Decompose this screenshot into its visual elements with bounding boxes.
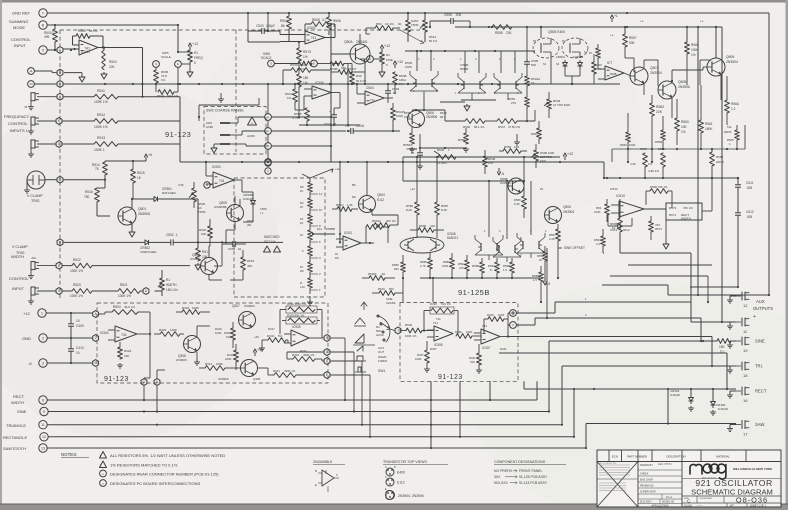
- svg-text:100K: 100K: [404, 115, 411, 119]
- svg-text:40K: 40K: [247, 264, 252, 268]
- resistor R588: [420, 253, 432, 278]
- terminal 13: [28, 81, 35, 88]
- trimmer BOTTOM END: [531, 144, 554, 168]
- svg-text:R545: R545: [437, 148, 445, 152]
- svg-text:R515: R515: [137, 171, 145, 175]
- svg-text:INPUT: INPUT: [12, 286, 25, 291]
- jack 18 TRI: [727, 362, 763, 378]
- svg-text:500A 1%: 500A 1%: [167, 94, 179, 98]
- trimmer R545: [430, 148, 466, 165]
- svg-text:(.1: (.1: [260, 211, 264, 215]
- resistor chain right: [350, 64, 367, 86]
- svg-text:R1: R1: [166, 278, 170, 282]
- boxed resistor R338: [424, 302, 458, 334]
- svg-text:3: 3: [42, 361, 44, 365]
- vert 348: [347, 64, 365, 125]
- svg-text:R547: R547: [498, 125, 506, 129]
- svg-text:R5612: R5612: [372, 219, 381, 223]
- IC506m out: [331, 93, 340, 109]
- svg-text:2N340L: 2N340L: [356, 40, 368, 44]
- wire q508 down: [627, 98, 672, 163]
- svg-text:R9: R9: [335, 256, 339, 260]
- svg-text:R56A: R56A: [731, 102, 740, 106]
- svg-text:ICT: ICT: [607, 61, 612, 65]
- resistor R50h: [366, 22, 400, 34]
- resistor R518A: [362, 272, 395, 280]
- svg-text:MODE: MODE: [13, 25, 25, 30]
- resistor 15K D1: [702, 339, 736, 354]
- svg-text:C503: C503: [256, 24, 264, 28]
- svg-text:CHECK: CHECK: [640, 473, 649, 476]
- svg-text:51K: 51K: [470, 360, 475, 364]
- svg-text:TRANSISTOR TOP VIEWS: TRANSISTOR TOP VIEWS: [383, 460, 427, 464]
- svg-text:24K 5: 24K 5: [716, 160, 724, 164]
- svg-text:GND REF: GND REF: [12, 11, 31, 16]
- svg-text:+L: +L: [640, 19, 644, 23]
- svg-text:IC510: IC510: [610, 187, 618, 191]
- pot RL freq: [181, 42, 203, 77]
- svg-text:R511: R511: [97, 89, 105, 93]
- svg-text:R335 80K 1%: R335 80K 1%: [287, 314, 305, 318]
- transistor Q50A: [344, 40, 370, 64]
- wire R515 down: [131, 183, 133, 200]
- svg-text:10: 10: [612, 226, 616, 230]
- op-amp output wire: [97, 48, 144, 98]
- svg-text:499K 1%: 499K 1%: [303, 353, 315, 357]
- resistor R504b2: [156, 67, 179, 98]
- svg-text:86: 86: [281, 24, 285, 28]
- resistor R590: [410, 224, 444, 232]
- resistor R589: [442, 253, 454, 278]
- svg-text:100K 1: 100K 1: [94, 148, 105, 152]
- svg-text:R320: R320: [182, 306, 190, 310]
- svg-text:R560: R560: [620, 143, 627, 147]
- svg-text:FREQUENCY: FREQUENCY: [4, 114, 29, 119]
- svg-text:100K: 100K: [170, 328, 177, 332]
- svg-text:Q507: Q507: [650, 66, 658, 70]
- ICT out wire: [624, 73, 631, 76]
- svg-text:13: 13: [41, 446, 45, 450]
- Q306 wires: [194, 326, 210, 365]
- svg-text:+5V: +5V: [254, 335, 259, 339]
- pot R573 RECT WIDTH box: [644, 178, 712, 221]
- wire cluster joins: [420, 102, 535, 146]
- node E scale: [311, 60, 318, 67]
- svg-text:921 OSCILLATOR: 921 OSCILLATOR: [695, 478, 772, 488]
- label 91-123 bl: [104, 376, 129, 383]
- svg-text:+: +: [753, 314, 756, 320]
- Q509 base link: [671, 67, 707, 82]
- Q50A wires: [331, 34, 381, 72]
- svg-text:IC506: IC506: [315, 81, 324, 85]
- svg-text:741: 741: [121, 333, 127, 337]
- mid wire y148: [419, 147, 466, 149]
- ladder top trim: [302, 167, 340, 182]
- svg-text:3XX: 3XX: [494, 475, 501, 479]
- resistor R339: [453, 330, 481, 338]
- svg-text:REVIEW QC: REVIEW QC: [640, 485, 654, 488]
- svg-text:V CLAMP: V CLAMP: [12, 245, 28, 249]
- wire rectangle row: [48, 436, 574, 438]
- wire bus y51 pairs: [405, 50, 535, 52]
- svg-text:TRIG: TRIG: [31, 199, 40, 203]
- svg-text:68.1%: 68.1%: [89, 29, 98, 33]
- capacitor C502: [152, 233, 283, 245]
- resistor R504b: [99, 305, 150, 335]
- Q501 collector: [132, 199, 151, 208]
- resistor R560b: [620, 113, 636, 152]
- resistor R337: [415, 341, 430, 372]
- arrow +L top: [610, 14, 618, 22]
- svg-text:100K: 100K: [629, 143, 636, 147]
- svg-text:R313: R313: [205, 362, 213, 366]
- svg-text:SET 1%: SET 1%: [264, 240, 276, 244]
- resistor R318: [225, 344, 238, 370]
- vert aux feeds: [698, 27, 722, 322]
- supply verts box D: [402, 157, 434, 302]
- svg-text:+12: +12: [384, 44, 390, 48]
- wire y125: [299, 124, 360, 126]
- svg-text:R59B: R59B: [472, 264, 479, 268]
- resistor R5C6: [285, 83, 304, 110]
- node A out1: [141, 378, 150, 385]
- svg-text:SHAPE: SHAPE: [386, 301, 396, 305]
- svg-text:B: B: [267, 144, 269, 148]
- svg-text:R5V4: R5V4: [297, 67, 305, 71]
- resistor R5C7: [332, 203, 358, 211]
- svg-text:.05: .05: [410, 151, 415, 155]
- svg-text:.01: .01: [237, 247, 242, 251]
- note 1: [100, 452, 226, 459]
- wire sine front up: [548, 341, 550, 413]
- terminal 5 CONTROL INPUT: [11, 37, 47, 54]
- resistor R586: [406, 157, 419, 238]
- capacitor C505: [524, 26, 539, 67]
- svg-text:A: A: [267, 115, 269, 119]
- resistor R516: [84, 180, 110, 216]
- svg-text:B5: B5: [352, 183, 356, 187]
- svg-text:D56BB: D56BB: [326, 227, 335, 231]
- node D2b: [324, 358, 330, 365]
- A row wire: [271, 116, 332, 118]
- svg-text:ALL RESISTORS 5%, 1/2 WATT UNL: ALL RESISTORS 5%, 1/2 WATT UNLESS OTHERW…: [110, 453, 225, 458]
- transistor Q502: [190, 253, 218, 275]
- resistor R310: [287, 352, 324, 361]
- svg-text:R332: R332: [300, 349, 307, 353]
- svg-text:R317: R317: [268, 327, 275, 331]
- svg-text:TRIANGLE: TRIANGLE: [6, 423, 26, 428]
- terminal 11 TRIANGLE: [6, 421, 47, 429]
- svg-text:00: 00: [398, 22, 402, 26]
- svg-text:C409: C409: [76, 324, 84, 328]
- svg-text:1K: 1K: [300, 221, 304, 225]
- node M: [45, 176, 63, 183]
- svg-text:49.9 1%: 49.9 1%: [124, 305, 135, 309]
- transistor Q50B mid: [500, 177, 524, 194]
- svg-text:100K: 100K: [192, 306, 199, 310]
- svg-text:91-123: 91-123: [438, 374, 463, 381]
- svg-text:+L: +L: [610, 33, 614, 37]
- svg-text:1K 1%: 1K 1%: [385, 22, 394, 26]
- svg-text:SUMMING: SUMMING: [9, 19, 28, 24]
- svg-text:R657: R657: [629, 36, 637, 40]
- transistor Q504: [359, 193, 386, 213]
- svg-text:91-123: 91-123: [165, 130, 191, 139]
- svg-text:100K 1%: 100K 1%: [70, 294, 83, 298]
- texture labels top: [404, 19, 704, 119]
- svg-text:IC504: IC504: [100, 331, 109, 335]
- svg-text:S2: S2: [556, 62, 560, 66]
- svg-text:4.7: 4.7: [322, 18, 327, 22]
- svg-text:IC507: IC507: [482, 346, 491, 350]
- node A mid: [265, 114, 272, 121]
- resistor R522: [63, 258, 191, 273]
- svg-text:50 1%: 50 1%: [429, 39, 437, 43]
- IC505 out: [309, 337, 324, 339]
- svg-text:S: S: [270, 62, 272, 66]
- svg-text:TRIM: TRIM: [198, 210, 206, 214]
- svg-text:100K 1%: 100K 1%: [94, 100, 108, 104]
- svg-text:FORM: FORM: [378, 359, 387, 363]
- svg-text:1K: 1K: [300, 189, 304, 193]
- gnd mid: [514, 134, 520, 145]
- svg-text:WILLIAMSVILLE NEW YORK: WILLIAMSVILLE NEW YORK: [733, 467, 773, 471]
- svg-text:4.99: 4.99: [630, 162, 636, 166]
- svg-text:E112: E112: [377, 198, 384, 202]
- trimmer SAST: [420, 13, 437, 43]
- svg-text:100K: 100K: [442, 264, 449, 268]
- svg-text:SINE: SINE: [755, 339, 765, 344]
- svg-text:V: V: [512, 323, 514, 327]
- svg-text:CR502: CR502: [140, 246, 150, 250]
- resistor R565b: [724, 125, 739, 150]
- resistor R547: [497, 119, 535, 129]
- svg-text:2: 2: [95, 336, 97, 340]
- wire bus y100: [412, 100, 496, 111]
- jack 17 SAW: [727, 421, 765, 437]
- svg-text:15: 15: [531, 81, 535, 85]
- svg-text:GND: GND: [22, 336, 31, 341]
- svg-text:TRIM: TRIM: [411, 23, 419, 27]
- svg-text:INPUTS 1: INPUTS 1: [10, 128, 29, 133]
- svg-text:G: G: [533, 50, 535, 54]
- input jack L2 row: [28, 140, 56, 157]
- svg-text:1.5: 1.5: [533, 278, 537, 282]
- svg-text:LES 7/5/71: LES 7/5/71: [658, 462, 672, 466]
- svg-text:1%: 1%: [691, 53, 696, 57]
- svg-text:RECT: RECT: [755, 389, 767, 394]
- top bus dots: [267, 12, 717, 28]
- svg-text:D1: D1: [533, 39, 537, 43]
- wire top bus 27: [455, 26, 722, 28]
- vert 268: [267, 84, 269, 159]
- diag trim arrow: [400, 30, 424, 44]
- node F mid: [265, 159, 272, 166]
- diff pair 4: [475, 235, 503, 260]
- svg-text:2.2K: 2.2K: [549, 237, 555, 241]
- svg-text:18: 18: [743, 373, 748, 378]
- resistor R325: [224, 322, 235, 348]
- resistor R540: [445, 119, 497, 129]
- svg-text:47.5K 1%: 47.5K 1%: [508, 125, 521, 129]
- wire bus +12 y157: [403, 152, 573, 160]
- svg-text:___: ___: [696, 503, 702, 507]
- svg-text:TAL: TAL: [727, 125, 732, 129]
- svg-text:600: 600: [394, 267, 399, 271]
- svg-text:-6: -6: [501, 172, 504, 176]
- svg-text:SAW.: SAW.: [755, 422, 765, 427]
- svg-text:CR50A: CR50A: [556, 55, 565, 59]
- capacitor C506: [430, 13, 470, 27]
- hex A2 sine drop: [156, 385, 158, 412]
- svg-text:1K: 1K: [300, 233, 304, 237]
- dashed box 91-123 right: [400, 303, 518, 382]
- resistor R555: [470, 25, 541, 35]
- resistor R600v: [589, 44, 600, 69]
- svg-text:741: 741: [219, 179, 225, 183]
- svg-text:R56B 70K 1%: R56B 70K 1%: [650, 185, 668, 189]
- capacitor C409: [68, 313, 84, 338]
- label pin ticks pairs: [413, 90, 519, 95]
- svg-text:270: 270: [511, 101, 516, 105]
- svg-text:180K: 180K: [705, 127, 713, 131]
- diode CR305: [710, 389, 728, 415]
- op-amp IC501: [64, 40, 99, 55]
- svg-text:R340: R340: [487, 313, 494, 317]
- svg-text:R9: R9: [300, 269, 304, 273]
- resistor R567A: [594, 229, 605, 253]
- svg-text:741: 741: [311, 36, 317, 40]
- wire B: [47, 24, 178, 26]
- wire fan row12: [602, 285, 770, 296]
- svg-text:FINE: FINE: [386, 58, 393, 62]
- resistor R515: [131, 160, 145, 183]
- svg-text:.0012: .0012: [622, 228, 630, 232]
- pot D2: [360, 44, 393, 77]
- svg-text:R55B: R55B: [655, 140, 662, 144]
- svg-text:470: 470: [459, 266, 464, 270]
- svg-text:R563: R563: [681, 120, 689, 124]
- transistor Q508: [658, 80, 690, 99]
- svg-text:2N3906: 2N3906: [138, 212, 150, 216]
- wire B drop: [177, 25, 190, 53]
- svg-text:+: +: [329, 110, 331, 114]
- wire A out down: [143, 385, 145, 400]
- op-amp IC506b: [427, 321, 453, 347]
- IC507 out wires: [500, 313, 510, 338]
- resistor R575 pair: [640, 147, 665, 178]
- svg-text:10': 10': [319, 208, 323, 212]
- resistor R59D: [503, 258, 514, 278]
- power wires: [46, 312, 92, 364]
- svg-text:9: 9: [43, 410, 45, 414]
- dot B row: [177, 24, 179, 26]
- note 2: [100, 461, 178, 468]
- svg-text:R513: R513: [97, 136, 105, 140]
- svg-text:100: 100: [488, 161, 493, 165]
- diff pair 5: [493, 237, 521, 262]
- svg-text:CONTROL: CONTROL: [9, 276, 29, 281]
- svg-text:R506: R506: [333, 19, 341, 23]
- svg-text:2N3904: 2N3904: [244, 304, 255, 308]
- svg-text:J3: J3: [24, 105, 28, 109]
- dashed matched set box: [234, 178, 325, 297]
- gnd rect shaper: [663, 220, 669, 249]
- svg-text:2.7K: 2.7K: [420, 264, 426, 268]
- wire tri front up: [561, 366, 563, 426]
- node plus out: [510, 310, 517, 317]
- svg-text:WT: WT: [730, 505, 734, 508]
- resistor R59B: [472, 258, 484, 278]
- resistor R504A: [525, 67, 541, 97]
- Q501 emitter gnd: [129, 224, 135, 237]
- svg-text:8: 8: [58, 264, 60, 268]
- node width1: [11, 254, 62, 269]
- resistor R56B: [646, 185, 672, 208]
- node A out2: [154, 370, 165, 385]
- V clamp lamp: [24, 171, 45, 203]
- node N3 VCLAMP: [12, 239, 63, 260]
- svg-text:2N3904, 2N3906: 2N3904, 2N3906: [398, 494, 424, 498]
- resistor R585: [532, 266, 543, 290]
- svg-text:MATCHED: MATCHED: [162, 191, 176, 195]
- resistor R550h: [499, 145, 527, 153]
- resistor R511: [64, 89, 181, 104]
- svg-text:R337: R337: [430, 347, 437, 351]
- extra dots: [54, 26, 621, 426]
- svg-text:SCALE: SCALE: [684, 505, 692, 508]
- svg-text:2N3906: 2N3906: [678, 85, 690, 89]
- svg-text:CONTROL: CONTROL: [8, 121, 28, 126]
- resistor R54Bv: [483, 150, 496, 174]
- svg-text:17: 17: [743, 432, 748, 437]
- wire N3 row: [64, 241, 143, 243]
- svg-text:T: T: [267, 161, 269, 165]
- svg-text:.005: .005: [455, 13, 461, 17]
- vert 268 top: [267, 13, 269, 32]
- terminal 9 SINE: [17, 407, 48, 415]
- svg-text:180: 180: [303, 76, 309, 80]
- svg-text:100K: 100K: [405, 65, 412, 69]
- label matched set: [264, 235, 281, 252]
- svg-text:100: 100: [514, 145, 519, 149]
- svg-text:741: 741: [482, 324, 487, 328]
- vert 595 down: [594, 84, 596, 162]
- svg-text:500: 500: [389, 287, 394, 291]
- svg-text:S1: S1: [543, 62, 547, 66]
- wire bus y162: [180, 161, 604, 178]
- svg-text:V CLAMP: V CLAMP: [27, 194, 43, 198]
- resistor R595c: [282, 63, 330, 85]
- input jack width1: [28, 262, 56, 279]
- svg-text:UNMATCHED: UNMATCHED: [140, 250, 157, 254]
- svg-text:2N3904: 2N3904: [650, 71, 662, 75]
- svg-text:E: E: [95, 361, 97, 365]
- node L2: [56, 141, 62, 148]
- svg-text:R553: R553: [531, 132, 538, 136]
- svg-text:741: 741: [370, 98, 375, 102]
- svg-text:100K: 100K: [415, 357, 422, 361]
- transistor Q507: [630, 66, 662, 85]
- array verts: [488, 180, 531, 239]
- svg-text:MATERIAL: MATERIAL: [716, 455, 730, 459]
- svg-text:WIDTH: WIDTH: [681, 217, 691, 221]
- resistor R521: [118, 283, 143, 298]
- svg-text:5%: 5%: [278, 334, 283, 338]
- svg-text:91-125B: 91-125B: [458, 288, 490, 297]
- op-amp IC504b: [356, 83, 384, 105]
- svg-text:R515: R515: [247, 259, 255, 263]
